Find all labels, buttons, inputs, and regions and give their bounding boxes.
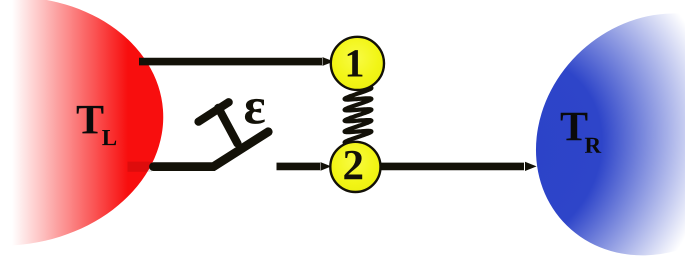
- T_L label (T): [77, 106, 104, 133]
- T_R label (T): [561, 113, 588, 141]
- epsilon label: [245, 99, 265, 124]
- wire from left bath to switch bend (bottom), with lever: [154, 132, 269, 167]
- coupling symbol top bar (parallel to lever): [199, 102, 229, 122]
- darker patch where wire passes under red bath: [128, 162, 153, 172]
- T_R subscript R: [585, 138, 601, 153]
- site 2 (yellow circle): [330, 142, 380, 192]
- T_L subscript L: [102, 130, 116, 145]
- label 2: [344, 151, 362, 180]
- site 1 (yellow circle): [331, 37, 384, 90]
- wire from site 2 to right bath: [380, 162, 537, 171]
- wire from left bath to site 1 (top): [139, 57, 334, 66]
- coupling symbol stem (perpendicular): [218, 108, 237, 144]
- spring between sites 1 and 2: [345, 88, 372, 144]
- left thermal bath T_L (red): [0, 0, 172, 257]
- right thermal bath T_R (blue): [486, 0, 685, 258]
- label 1: [348, 50, 363, 76]
- wire from switch to site 2: [277, 162, 332, 171]
